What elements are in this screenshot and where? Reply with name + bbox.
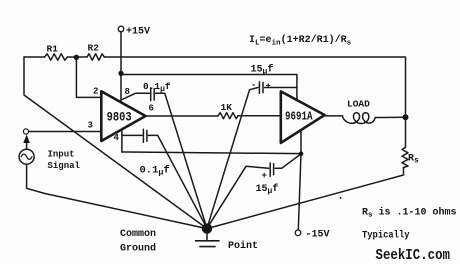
svg-text:Rs is .1-10 ohms: Rs is .1-10 ohms: [362, 207, 457, 220]
svg-text:Ground: Ground: [120, 243, 156, 255]
svg-text:6: 6: [149, 104, 154, 114]
svg-text:+: +: [262, 171, 267, 181]
svg-text:2: 2: [93, 87, 98, 97]
svg-text:Input: Input: [48, 150, 75, 160]
svg-text:0.1µf: 0.1µf: [143, 81, 171, 94]
svg-text:R1: R1: [47, 44, 59, 55]
svg-text:+: +: [266, 82, 271, 92]
svg-text:3: 3: [88, 121, 93, 131]
svg-text:+15V: +15V: [126, 27, 150, 38]
svg-text:-: -: [251, 81, 256, 91]
svg-text:0.1µf: 0.1µf: [140, 165, 170, 178]
svg-text:LOAD: LOAD: [347, 99, 370, 110]
svg-text:Typically: Typically: [362, 230, 410, 242]
svg-text:4: 4: [114, 133, 120, 143]
svg-text:1K: 1K: [221, 102, 233, 113]
svg-text:15µf: 15µf: [251, 64, 274, 77]
svg-text:9803: 9803: [107, 110, 132, 125]
svg-text:8: 8: [125, 87, 130, 97]
svg-text:IL=ein(1+R2/R1)/Rs: IL=ein(1+R2/R1)/Rs: [249, 34, 352, 48]
svg-text:Point: Point: [228, 240, 258, 252]
svg-text:R2: R2: [88, 43, 100, 54]
svg-text:-15V: -15V: [306, 230, 330, 241]
svg-text:SeekIC.com: SeekIC.com: [376, 247, 451, 264]
svg-text:Common: Common: [120, 229, 156, 240]
svg-text:Rs: Rs: [408, 154, 419, 166]
svg-text:9691A: 9691A: [285, 109, 313, 123]
svg-text:Signal: Signal: [48, 161, 81, 171]
svg-text:15µf: 15µf: [256, 183, 279, 196]
